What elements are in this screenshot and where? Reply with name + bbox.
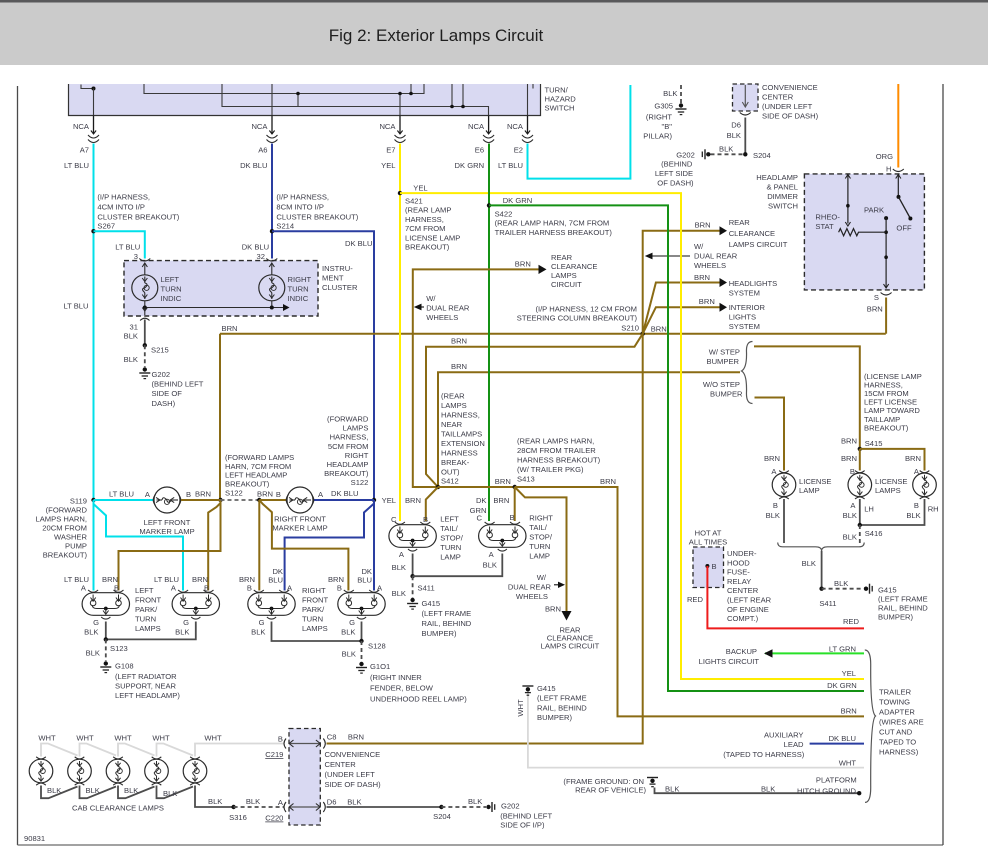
svg-text:LAMPS: LAMPS [135, 624, 161, 633]
svg-text:90831: 90831 [24, 834, 45, 843]
svg-text:(I/P HARNESS,: (I/P HARNESS, [276, 193, 329, 202]
node S204 top [743, 152, 747, 156]
wire BRN main bus [220, 333, 886, 335]
svg-text:MARKER LAMP: MARKER LAMP [272, 524, 327, 533]
svg-text:BRN: BRN [495, 477, 511, 486]
lamp LICENSE LAMPS right [913, 471, 937, 499]
svg-text:C219: C219 [265, 750, 283, 759]
svg-text:7CM FROM: 7CM FROM [405, 224, 446, 233]
svg-text:NEAR: NEAR [441, 420, 463, 429]
svg-text:BRN: BRN [699, 297, 715, 306]
svg-text:S119: S119 [70, 497, 87, 506]
ground G415 right inline [864, 587, 868, 591]
svg-text:BUMPER: BUMPER [710, 390, 743, 399]
svg-text:S421: S421 [405, 197, 423, 206]
svg-text:G415: G415 [878, 586, 897, 595]
svg-text:W/: W/ [537, 573, 547, 582]
svg-text:B: B [712, 562, 717, 571]
svg-text:TRAILER HARNESS BREAKOUT): TRAILER HARNESS BREAKOUT) [495, 228, 613, 237]
node S267 [91, 229, 95, 233]
svg-text:OF DASH): OF DASH) [657, 179, 694, 188]
svg-text:B: B [510, 513, 515, 522]
svg-text:BUMPER): BUMPER) [537, 713, 572, 722]
svg-text:(REAR LAMP HARN, 7CM FROM: (REAR LAMP HARN, 7CM FROM [495, 219, 610, 228]
svg-text:DK GRN: DK GRN [503, 196, 533, 205]
svg-text:TAIL/: TAIL/ [440, 524, 458, 533]
wire BRN S415 to right license A [860, 449, 925, 471]
svg-text:C8: C8 [327, 733, 337, 742]
svg-text:RIGHT: RIGHT [345, 451, 369, 460]
svg-text:(LEFT RADIATOR: (LEFT RADIATOR [115, 672, 177, 681]
svg-text:BRN: BRN [257, 490, 273, 499]
svg-text:OFF: OFF [896, 224, 912, 233]
svg-text:BLK: BLK [251, 628, 265, 637]
wire LT BLU S119 to left marker lamp A [94, 499, 154, 501]
svg-text:B: B [247, 584, 252, 593]
svg-text:STOP/: STOP/ [529, 533, 553, 542]
wire WHT from G415 left [528, 691, 864, 768]
wire LT BLU S119 branch to park lamp2 A [94, 504, 184, 591]
svg-text:S122: S122 [351, 478, 369, 487]
svg-text:BREAKOUT): BREAKOUT) [43, 551, 88, 560]
svg-text:BRN: BRN [451, 362, 467, 371]
svg-text:BLK: BLK [719, 145, 733, 154]
wire BRN S413 to rear clearance (w/dual) [515, 487, 567, 611]
rheostat wiper arm [847, 175, 849, 224]
svg-text:BLK: BLK [761, 785, 775, 794]
trailer towing adapter brace [865, 650, 876, 802]
svg-text:B: B [773, 501, 778, 510]
svg-text:TURN: TURN [302, 615, 323, 624]
svg-text:(FORWARD: (FORWARD [46, 506, 88, 515]
svg-text:(BEHIND: (BEHIND [661, 160, 693, 169]
svg-text:WHT: WHT [516, 699, 525, 717]
svg-text:G415: G415 [422, 599, 441, 608]
svg-text:YEL: YEL [842, 669, 856, 678]
svg-text:(BEHIND LEFT: (BEHIND LEFT [152, 380, 204, 389]
svg-text:B: B [278, 735, 283, 744]
svg-text:BRN: BRN [545, 605, 561, 614]
frame left border [17, 86, 19, 845]
svg-text:LAMPS: LAMPS [875, 486, 901, 495]
svg-text:W/ STEP: W/ STEP [709, 348, 740, 357]
svg-text:S316: S316 [229, 813, 247, 822]
svg-text:C: C [477, 514, 483, 523]
svg-text:28CM FROM TRAILER: 28CM FROM TRAILER [517, 446, 596, 455]
wire BRN S415 to middle license B [859, 449, 861, 471]
svg-text:LICENSE: LICENSE [799, 477, 832, 486]
svg-text:NCA: NCA [468, 122, 485, 131]
NCA drop wire E6 [488, 116, 490, 135]
svg-text:TURN: TURN [529, 542, 550, 551]
svg-text:LT GRN: LT GRN [829, 645, 856, 654]
svg-text:"B": "B" [662, 122, 673, 131]
svg-text:G: G [183, 618, 189, 627]
lamp LEFT TAIL/STOP/TURN [389, 522, 436, 551]
right turn indicator entry connector [266, 259, 277, 262]
svg-text:SUPPORT, NEAR: SUPPORT, NEAR [115, 682, 177, 691]
license ground gather brace [778, 543, 865, 552]
svg-text:RED: RED [687, 595, 704, 604]
svg-text:G305: G305 [654, 102, 673, 111]
node S204 bottom [439, 805, 443, 809]
wire LT BLU S119 down to park lamp1 A [93, 500, 95, 591]
svg-text:G: G [259, 618, 265, 627]
svg-text:S416: S416 [865, 529, 883, 538]
svg-text:G202: G202 [676, 151, 695, 160]
svg-text:DUAL REAR: DUAL REAR [426, 304, 470, 313]
dashed BLK S128 to G1O1 [361, 641, 363, 662]
svg-text:BLK: BLK [124, 332, 138, 341]
svg-text:BRN: BRN [515, 260, 531, 269]
terminal B [705, 564, 709, 568]
wire WHT cab bus [41, 744, 284, 757]
svg-text:ALL TIMES: ALL TIMES [689, 538, 727, 547]
svg-text:BLK: BLK [342, 650, 356, 659]
svg-text:HEADLAMP: HEADLAMP [756, 173, 798, 182]
wire BRN rear clearance mid-left arrow [413, 269, 539, 487]
svg-text:G202: G202 [152, 370, 171, 379]
svg-text:HEADLIGHTS: HEADLIGHTS [729, 279, 778, 288]
wire BRN S122 left down to left park lamp1 B [119, 500, 221, 591]
svg-text:G202: G202 [501, 802, 520, 811]
svg-text:C: C [391, 515, 397, 524]
lamp RIGHT FRONT PARK/TURN 1 [248, 590, 295, 619]
node S415 [858, 447, 862, 451]
svg-text:WHT: WHT [114, 734, 132, 743]
svg-text:UNDERHOOD REEL LAMP): UNDERHOOD REEL LAMP) [370, 695, 467, 704]
svg-text:BRN: BRN [841, 707, 857, 716]
svg-text:WASHER: WASHER [54, 533, 88, 542]
svg-text:YEL: YEL [381, 161, 395, 170]
brace w/step-w/o step [742, 342, 753, 404]
svg-text:HEADLAMP: HEADLAMP [327, 460, 369, 469]
svg-text:BLK: BLK [392, 563, 406, 572]
lamp CAB CLEARANCE 4 [145, 757, 169, 785]
svg-text:LAMPS CIRCUIT: LAMPS CIRCUIT [541, 642, 600, 651]
left turn indicator entry connector [139, 259, 150, 262]
svg-text:G1O1: G1O1 [370, 662, 390, 671]
switch internal wire A7 vertical [93, 89, 95, 116]
svg-text:S267: S267 [97, 222, 115, 231]
svg-text:SYSTEM: SYSTEM [729, 289, 760, 298]
wire BRN S413 to trailer via right column [515, 487, 864, 716]
svg-text:(LEFT FRAME: (LEFT FRAME [422, 609, 472, 618]
node S122 left [218, 498, 222, 502]
svg-text:S128: S128 [368, 642, 386, 651]
svg-text:B: B [337, 584, 342, 593]
svg-text:(RIGHT: (RIGHT [646, 113, 673, 122]
svg-text:D6: D6 [731, 121, 741, 130]
wire BRN S412 riser to step-bumper brace [438, 372, 740, 487]
svg-text:4CM INTO I/P: 4CM INTO I/P [97, 203, 145, 212]
svg-text:BLK: BLK [665, 785, 679, 794]
svg-text:SIDE OF DASH): SIDE OF DASH) [762, 112, 819, 121]
svg-text:BRN: BRN [451, 337, 467, 346]
internal vertical E7 feed [399, 94, 401, 116]
svg-text:LEAD: LEAD [784, 740, 804, 749]
svg-text:CAB CLEARANCE LAMPS: CAB CLEARANCE LAMPS [72, 804, 164, 813]
svg-text:WHT: WHT [204, 734, 222, 743]
svg-text:W/: W/ [694, 242, 704, 251]
svg-text:CIRCUIT: CIRCUIT [551, 280, 582, 289]
svg-text:BLK: BLK [175, 628, 189, 637]
dashed BLK S316 to C220 [234, 806, 284, 808]
connector C8 [316, 740, 320, 747]
svg-text:LEFT: LEFT [135, 586, 154, 595]
svg-text:SWITCH: SWITCH [768, 202, 798, 211]
svg-text:(I/P HARNESS, 12 CM FROM: (I/P HARNESS, 12 CM FROM [535, 305, 637, 314]
svg-text:RIGHT: RIGHT [302, 586, 326, 595]
wire RED to trailer [707, 566, 864, 628]
svg-text:BLK: BLK [124, 786, 138, 795]
svg-text:LT BLU: LT BLU [64, 161, 89, 170]
dashed BLK to G415 right [822, 588, 863, 590]
svg-text:BLK: BLK [86, 649, 100, 658]
wire DK BLU S214 branch right and down [272, 231, 374, 500]
svg-text:(UNDER LEFT: (UNDER LEFT [762, 102, 813, 111]
node S411 right [819, 587, 823, 591]
ground G202 inline (bottom) [486, 805, 490, 809]
connector C219 [284, 739, 286, 749]
svg-text:DK BLU: DK BLU [242, 243, 269, 252]
wire BRN S412 to left tail B [426, 487, 438, 521]
svg-text:31: 31 [130, 323, 138, 332]
svg-text:S122: S122 [225, 488, 243, 497]
svg-text:SWITCH: SWITCH [545, 104, 575, 113]
svg-text:CUT AND: CUT AND [879, 728, 913, 737]
wire BLK right pair grounds to S128 [272, 622, 362, 642]
connector D6 [316, 804, 320, 811]
wire BLK right license B to S416 [860, 499, 925, 525]
svg-text:HARNESS): HARNESS) [879, 748, 919, 757]
svg-text:8CM INTO I/P: 8CM INTO I/P [276, 203, 324, 212]
svg-text:HARNESS,: HARNESS, [405, 215, 444, 224]
svg-text:BUMPER): BUMPER) [422, 629, 457, 638]
W/ DUAL REAR WHEELS pointer (top) [648, 255, 690, 257]
wire DK BLU A6 vertical [271, 144, 273, 259]
svg-text:OF ENGINE: OF ENGINE [727, 605, 769, 614]
internal vertical E2 [527, 84, 529, 116]
lamp LEFT FRONT PARK/TURN 2 [172, 590, 219, 619]
svg-text:CONVENIENCE: CONVENIENCE [762, 83, 818, 92]
svg-text:EXTENSION: EXTENSION [441, 439, 485, 448]
svg-text:PARK: PARK [864, 206, 884, 215]
svg-text:LT BLU: LT BLU [115, 243, 140, 252]
svg-text:WHT: WHT [839, 759, 857, 768]
frame right border [942, 84, 944, 845]
svg-text:W/: W/ [426, 294, 436, 303]
switch internal line A [144, 84, 424, 94]
svg-text:RHEO-: RHEO- [815, 213, 840, 222]
svg-text:LEFT: LEFT [161, 275, 180, 284]
node S422 [487, 203, 491, 207]
svg-text:HARN, 7CM FROM: HARN, 7CM FROM [225, 462, 291, 471]
svg-text:INSTRU-: INSTRU- [322, 264, 353, 273]
wire BRN S210 to interior lights system [643, 307, 720, 334]
NCA drop wire A6 [271, 116, 273, 135]
ground G202 inline (top) [706, 152, 710, 156]
switch pivot and blade to OFF [897, 195, 901, 199]
svg-text:BLK: BLK [843, 533, 857, 542]
svg-text:& PANEL: & PANEL [766, 183, 798, 192]
svg-text:YEL: YEL [382, 496, 396, 505]
wire BLK left tail A to S411 [412, 554, 414, 577]
cluster internal arrow [283, 304, 290, 311]
svg-text:UNDER-: UNDER- [727, 549, 757, 558]
internal stub x298 [297, 94, 299, 107]
W/ DUAL REAR WHEELS pointer (mid-left) [417, 306, 424, 308]
svg-text:BRN: BRN [695, 221, 711, 230]
node S411 left [410, 574, 414, 578]
svg-text:STAT: STAT [815, 222, 834, 231]
lamp CAB CLEARANCE 5 [183, 757, 207, 785]
svg-text:32: 32 [257, 252, 265, 261]
svg-text:(UNDER LEFT: (UNDER LEFT [325, 770, 376, 779]
svg-text:DK BLU: DK BLU [345, 239, 372, 248]
svg-text:H: H [886, 165, 891, 174]
lamp LEFT TURN INDIC [132, 275, 158, 301]
wire BLK cab bus [41, 786, 234, 808]
lamp RIGHT TURN INDIC [259, 275, 285, 301]
svg-text:CLEARANCE: CLEARANCE [729, 229, 775, 238]
node S413 [513, 485, 517, 489]
svg-text:DUAL REAR: DUAL REAR [508, 583, 552, 592]
svg-text:REAR: REAR [551, 253, 573, 262]
svg-text:SIDE OF DASH): SIDE OF DASH) [325, 780, 382, 789]
svg-text:CENTER: CENTER [325, 760, 357, 769]
svg-text:20CM FROM: 20CM FROM [42, 524, 87, 533]
svg-text:B: B [850, 467, 855, 476]
svg-text:Fig 2: Exterior Lamps Circuit: Fig 2: Exterior Lamps Circuit [329, 26, 544, 45]
svg-text:INDIC: INDIC [288, 294, 309, 303]
wire BRN from S to bus [885, 298, 887, 334]
svg-text:FRONT: FRONT [302, 596, 329, 605]
svg-text:TURN: TURN [135, 615, 156, 624]
svg-text:PLATFORM: PLATFORM [816, 776, 857, 785]
svg-text:S204: S204 [433, 812, 451, 821]
wire BLK 31 to S215 [144, 320, 146, 346]
svg-text:PUMP: PUMP [65, 542, 87, 551]
svg-text:HARNESS: HARNESS [441, 449, 478, 458]
wire BRN S413 down to right tail B [514, 487, 516, 521]
NCA drop wire E7 [399, 116, 401, 135]
svg-text:LIGHTS CIRCUIT: LIGHTS CIRCUIT [699, 657, 760, 666]
resistor zigzag [839, 229, 887, 236]
svg-text:BLK: BLK [766, 511, 780, 520]
svg-text:BRN: BRN [867, 305, 883, 314]
lamp RIGHT FRONT MARKER [286, 487, 314, 513]
NCA drop wire A7 [93, 116, 95, 135]
svg-text:B: B [204, 584, 209, 593]
svg-text:LEFT SIDE: LEFT SIDE [655, 169, 693, 178]
svg-text:A6: A6 [258, 146, 267, 155]
svg-text:TURN: TURN [161, 285, 182, 294]
svg-text:LAMP: LAMP [529, 552, 550, 561]
ground G305 [679, 103, 683, 107]
svg-text:(RIGHT INNER: (RIGHT INNER [370, 673, 422, 682]
dashed S122 to S122 [221, 499, 260, 501]
internal vertical x411 [410, 84, 412, 94]
svg-text:DK BLU: DK BLU [240, 161, 267, 170]
svg-text:HOOD: HOOD [727, 558, 750, 567]
svg-text:E7: E7 [386, 146, 395, 155]
svg-text:HOT AT: HOT AT [695, 529, 722, 538]
svg-text:BREAKOUT): BREAKOUT) [324, 469, 369, 478]
svg-text:BLK: BLK [208, 797, 222, 806]
svg-text:LAMP: LAMP [799, 486, 820, 495]
node S416 [858, 523, 862, 527]
wire BRN S210 down to convenience center C8 [327, 334, 643, 744]
svg-text:BRN: BRN [405, 496, 421, 505]
svg-text:C220: C220 [265, 814, 283, 823]
svg-text:MENT: MENT [322, 274, 344, 283]
connector A7 [88, 135, 99, 143]
svg-text:BRN: BRN [600, 477, 616, 486]
svg-text:PILLAR): PILLAR) [643, 132, 672, 141]
svg-text:FENDER, BELOW: FENDER, BELOW [370, 684, 434, 693]
wire BLK D6 to S204 [327, 806, 442, 808]
svg-text:S411: S411 [418, 584, 435, 593]
junction dot [92, 87, 96, 91]
lamp RIGHT TAIL/STOP/TURN [479, 522, 526, 551]
svg-text:S411: S411 [819, 599, 836, 608]
wire ORG from top [897, 84, 899, 168]
svg-text:TURN: TURN [440, 543, 461, 552]
svg-text:BLK: BLK [834, 579, 848, 588]
svg-text:TOWING: TOWING [879, 698, 910, 707]
svg-text:BLK: BLK [246, 797, 260, 806]
header bar [0, 0, 988, 65]
svg-text:TAPED TO: TAPED TO [879, 738, 916, 747]
svg-text:S422: S422 [495, 210, 513, 219]
wire BRN S122 left branch to left park lamp2 B [208, 503, 220, 591]
svg-text:RAIL, BEHIND: RAIL, BEHIND [878, 604, 928, 613]
svg-text:LIGHTS: LIGHTS [729, 313, 756, 322]
svg-text:BLK: BLK [906, 511, 920, 520]
wire DK BLU auxiliary lead [810, 743, 864, 745]
svg-text:(WIRES ARE: (WIRES ARE [879, 718, 924, 727]
svg-text:RH: RH [928, 505, 939, 514]
svg-text:SIDE OF I/P): SIDE OF I/P) [500, 821, 545, 830]
dashed BLK S411 to G415 [412, 576, 414, 597]
svg-text:COMPT.): COMPT.) [727, 614, 759, 623]
S exit connector [881, 293, 892, 296]
svg-text:LICENSE LAMP: LICENSE LAMP [405, 233, 460, 242]
svg-text:BLK: BLK [86, 786, 100, 795]
svg-text:E6: E6 [475, 146, 484, 155]
dashed BLK S204 to G202 [711, 153, 746, 155]
svg-text:B: B [114, 584, 119, 593]
svg-text:BLK: BLK [163, 789, 177, 798]
svg-text:LAMPS: LAMPS [343, 424, 369, 433]
svg-text:NCA: NCA [507, 122, 524, 131]
node S316 [231, 805, 235, 809]
H entry arrow [897, 174, 899, 197]
node S214 [270, 229, 274, 233]
svg-text:HAZARD: HAZARD [545, 95, 577, 104]
ground G415 wht [522, 685, 533, 687]
svg-text:S415: S415 [865, 439, 883, 448]
svg-text:BRN: BRN [841, 454, 857, 463]
svg-text:NCA: NCA [251, 122, 268, 131]
svg-text:(REAR: (REAR [441, 392, 465, 401]
wire BRN S412 to S413 bus [438, 486, 515, 488]
svg-text:CENTER: CENTER [762, 93, 794, 102]
wire DK BLU junction down to right park lamp2 A [373, 500, 375, 591]
wire BRN bus down to S122 [219, 334, 221, 500]
svg-text:BLK: BLK [84, 628, 98, 637]
